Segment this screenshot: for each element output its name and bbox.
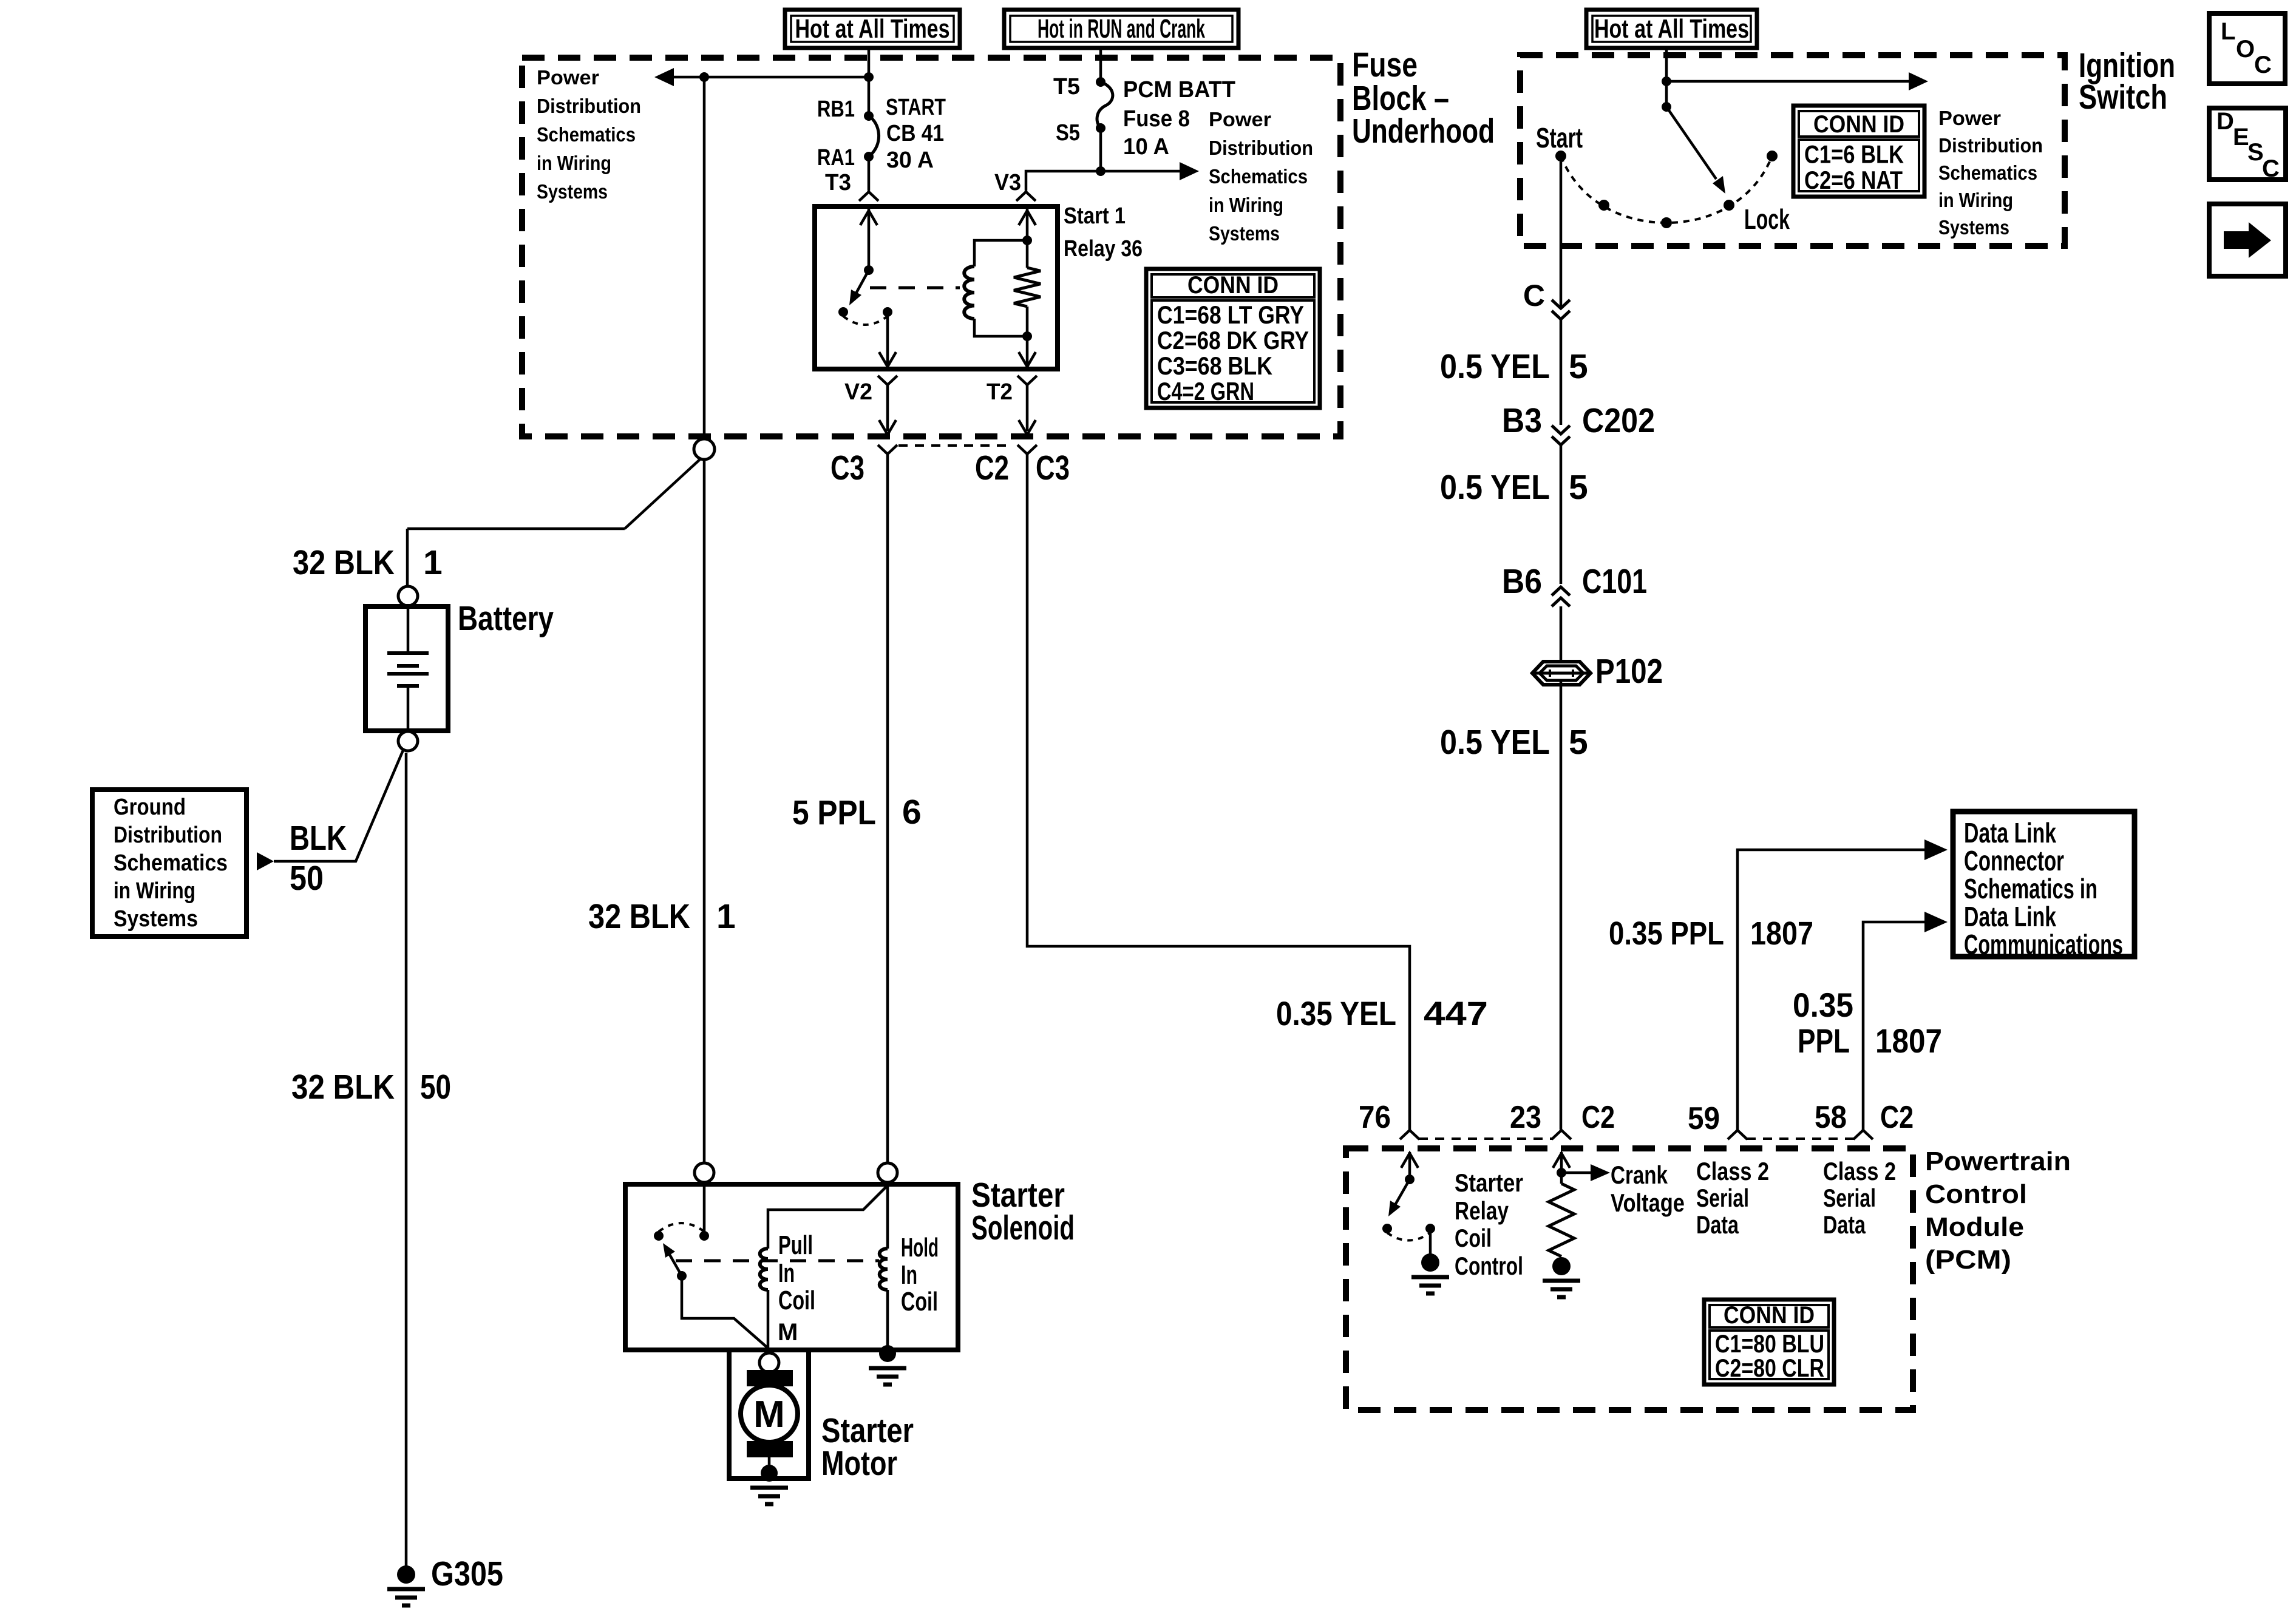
svg-text:32 BLK: 32 BLK bbox=[293, 543, 395, 582]
svg-text:C202: C202 bbox=[1582, 401, 1655, 440]
solenoid switch bbox=[703, 1182, 706, 1236]
relay resistor bbox=[1026, 206, 1029, 240]
svg-text:Serial: Serial bbox=[1823, 1184, 1876, 1212]
relay coil bbox=[964, 266, 974, 319]
ground distribution schematics box bbox=[92, 790, 246, 937]
DESC box bbox=[2209, 108, 2286, 180]
svg-text:Fuse 8: Fuse 8 bbox=[1123, 106, 1190, 132]
svg-text:V2: V2 bbox=[844, 379, 872, 405]
svg-text:Battery: Battery bbox=[458, 599, 554, 638]
svg-text:T5: T5 bbox=[1053, 74, 1080, 100]
svg-text:Class 2: Class 2 bbox=[1696, 1157, 1769, 1185]
starter solenoid box bbox=[625, 1184, 958, 1350]
relay coil output to T2 bbox=[1026, 336, 1029, 364]
svg-text:Hold: Hold bbox=[901, 1233, 939, 1263]
svg-text:Relay 36: Relay 36 bbox=[1064, 236, 1143, 262]
connector ring bbox=[694, 439, 715, 459]
svg-text:Pull: Pull bbox=[778, 1230, 813, 1260]
splice P102 bbox=[1532, 662, 1591, 685]
ground G305 bbox=[397, 1565, 415, 1584]
wire: branch to V3 bbox=[1026, 171, 1101, 191]
svg-text:C2=6 NAT: C2=6 NAT bbox=[1804, 166, 1903, 194]
terminal V2 below relay bbox=[878, 376, 897, 385]
svg-text:Distribution: Distribution bbox=[1938, 134, 2043, 157]
svg-text:Systems: Systems bbox=[1938, 216, 2009, 239]
CONN ID table (PCM) bbox=[1704, 1300, 1834, 1385]
svg-text:Hot at All Times: Hot at All Times bbox=[795, 14, 950, 44]
svg-text:In: In bbox=[778, 1258, 795, 1288]
PCM pull-down resistor bbox=[1549, 1184, 1574, 1256]
svg-text:Solenoid: Solenoid bbox=[971, 1209, 1075, 1247]
svg-text:C: C bbox=[2262, 155, 2280, 182]
wire+arrow to power distribution (ignition) bbox=[1666, 80, 1909, 83]
svg-text:PPL: PPL bbox=[1798, 1022, 1850, 1060]
terminal V3 chevron bbox=[1016, 192, 1036, 201]
svg-text:D: D bbox=[2216, 108, 2234, 135]
svg-text:Systems: Systems bbox=[114, 906, 198, 932]
svg-text:in Wiring: in Wiring bbox=[537, 152, 611, 174]
svg-text:G305: G305 bbox=[431, 1554, 503, 1593]
svg-text:C: C bbox=[1523, 279, 1545, 313]
svg-text:Crank: Crank bbox=[1611, 1161, 1668, 1189]
svg-text:in Wiring: in Wiring bbox=[1209, 194, 1283, 216]
svg-text:Lock: Lock bbox=[1744, 203, 1790, 235]
wire: feed to power distribution (left) bbox=[674, 76, 869, 79]
svg-text:C3: C3 bbox=[830, 449, 864, 487]
svg-text:Coil: Coil bbox=[901, 1287, 938, 1317]
PCM dashed box bbox=[1346, 1148, 1913, 1410]
svg-text:M: M bbox=[778, 1319, 798, 1346]
ignition feed wire bbox=[1665, 48, 1668, 107]
wire: fuse block to battery (32 BLK 1) bbox=[703, 77, 706, 439]
data link connector box bbox=[1953, 812, 2135, 957]
svg-text:0.35 YEL: 0.35 YEL bbox=[1276, 994, 1396, 1032]
wire: class 2 serial data 59 to data link bbox=[1737, 850, 1924, 1130]
pull in coil bbox=[760, 1249, 768, 1290]
wire: junction ring to starter solenoid left (32 BLK 1) bbox=[703, 459, 706, 1163]
svg-text:Data Link: Data Link bbox=[1964, 901, 2056, 932]
terminal T3 chevron bbox=[859, 192, 878, 201]
svg-text:CONN ID: CONN ID bbox=[1187, 272, 1279, 299]
svg-text:T3: T3 bbox=[825, 170, 851, 195]
junction node bbox=[864, 72, 874, 82]
svg-text:5: 5 bbox=[1569, 468, 1588, 507]
solenoid terminals bbox=[695, 1163, 714, 1182]
svg-text:M: M bbox=[753, 1394, 785, 1436]
svg-text:Schematics: Schematics bbox=[1209, 165, 1308, 188]
wire: C2/C3 to PCM 76 (0.35 YEL 447) bbox=[1027, 454, 1410, 1130]
PCM pin 59 bbox=[1728, 1130, 1747, 1139]
svg-text:Coil: Coil bbox=[1455, 1224, 1492, 1252]
svg-text:5 PPL: 5 PPL bbox=[792, 793, 876, 832]
svg-text:B6: B6 bbox=[1502, 562, 1542, 601]
svg-text:in Wiring: in Wiring bbox=[114, 878, 195, 904]
svg-text:32 BLK: 32 BLK bbox=[291, 1068, 395, 1107]
svg-text:T2: T2 bbox=[987, 379, 1013, 405]
svg-text:C1=68 LT GRY: C1=68 LT GRY bbox=[1157, 300, 1304, 329]
svg-text:CONN ID: CONN ID bbox=[1813, 111, 1904, 138]
svg-text:Schematics: Schematics bbox=[1938, 161, 2037, 184]
svg-text:Hot at All Times: Hot at All Times bbox=[1594, 14, 1749, 44]
svg-text:O: O bbox=[2236, 36, 2255, 63]
battery bbox=[398, 586, 418, 606]
svg-text:Serial: Serial bbox=[1696, 1184, 1749, 1212]
svg-text:C4=2 GRN: C4=2 GRN bbox=[1157, 377, 1254, 405]
PCM pin 76 bbox=[1400, 1130, 1419, 1139]
fuse block - underhood dashed box bbox=[522, 58, 1340, 436]
starter motor bbox=[729, 1350, 809, 1479]
relay output to V2 bbox=[886, 312, 889, 364]
ignition rotor arrow bbox=[1662, 102, 1671, 112]
svg-text:V3: V3 bbox=[994, 170, 1021, 195]
svg-text:Voltage: Voltage bbox=[1611, 1188, 1685, 1217]
header box: Hot at All Times (left) bbox=[785, 10, 960, 48]
ignition key positions arc bbox=[1561, 156, 1772, 223]
svg-text:Control: Control bbox=[1455, 1252, 1523, 1280]
svg-text:Hot in RUN and Crank: Hot in RUN and Crank bbox=[1038, 14, 1205, 44]
svg-text:Module: Module bbox=[1925, 1212, 2024, 1242]
svg-text:C2: C2 bbox=[975, 449, 1009, 487]
PCM crank voltage sense bbox=[1560, 1152, 1563, 1184]
wire: ignition Start output bbox=[1560, 161, 1563, 307]
svg-text:0.5 YEL: 0.5 YEL bbox=[1440, 347, 1550, 386]
svg-text:S5: S5 bbox=[1056, 120, 1080, 146]
solenoid blade with arrow bbox=[665, 1246, 682, 1276]
svg-text:CONN ID: CONN ID bbox=[1724, 1302, 1815, 1329]
svg-text:Distribution: Distribution bbox=[114, 822, 222, 848]
PCM connector dashed rows bbox=[1419, 1137, 1552, 1140]
svg-text:In: In bbox=[901, 1260, 917, 1290]
svg-text:30 A: 30 A bbox=[886, 147, 934, 173]
header box: Hot in RUN and Crank bbox=[1004, 10, 1238, 48]
arrow from ground distribution box bbox=[257, 852, 274, 870]
PCM starter relay coil control switch bbox=[1408, 1152, 1411, 1179]
wire: battery to G305 bbox=[405, 753, 408, 1567]
motor ground bbox=[761, 1465, 778, 1482]
connector row C3 / C2 C3 at fuse block bottom bbox=[898, 444, 1013, 447]
svg-text:Underhood: Underhood bbox=[1352, 112, 1495, 151]
svg-text:BLK: BLK bbox=[290, 819, 347, 858]
ignition switch dashed box bbox=[1520, 55, 2065, 246]
svg-text:0.35: 0.35 bbox=[1793, 986, 1853, 1024]
wire RA1 to T3 terminal bbox=[868, 157, 871, 191]
relay switch common bbox=[868, 206, 871, 270]
svg-text:50: 50 bbox=[290, 859, 324, 898]
wire: hot feed into fuse block bbox=[868, 48, 871, 116]
wire: C3 to starter solenoid right (5 PPL 6) bbox=[886, 454, 889, 1163]
relay contact dashed arc bbox=[843, 316, 888, 325]
forward arrow box bbox=[2209, 204, 2286, 276]
svg-text:Schematics: Schematics bbox=[537, 123, 636, 146]
LOC box bbox=[2209, 13, 2285, 84]
svg-text:Powertrain: Powertrain bbox=[1925, 1147, 2071, 1176]
svg-text:447: 447 bbox=[1424, 994, 1488, 1032]
svg-text:23: 23 bbox=[1510, 1100, 1541, 1135]
svg-text:Control: Control bbox=[1925, 1179, 2027, 1209]
svg-text:58: 58 bbox=[1815, 1100, 1847, 1135]
svg-text:0.5 YEL: 0.5 YEL bbox=[1440, 468, 1550, 507]
svg-text:1: 1 bbox=[716, 897, 736, 936]
CONN ID table (fuse block) bbox=[1146, 269, 1320, 408]
svg-text:76: 76 bbox=[1359, 1100, 1391, 1135]
svg-text:Start 1: Start 1 bbox=[1064, 203, 1126, 229]
svg-text:P102: P102 bbox=[1595, 652, 1663, 691]
svg-text:Data: Data bbox=[1823, 1210, 1866, 1239]
svg-text:32 BLK: 32 BLK bbox=[588, 897, 690, 936]
svg-text:Motor: Motor bbox=[821, 1444, 897, 1483]
svg-text:Schematics: Schematics bbox=[114, 850, 228, 876]
svg-text:L: L bbox=[2221, 18, 2235, 45]
circuit breaker CB 41 bbox=[864, 111, 874, 121]
svg-text:Switch: Switch bbox=[2079, 78, 2167, 117]
svg-text:C1=6 BLK: C1=6 BLK bbox=[1804, 140, 1904, 169]
svg-text:B3: B3 bbox=[1502, 401, 1542, 440]
svg-text:(PCM): (PCM) bbox=[1925, 1245, 2011, 1275]
svg-text:1807: 1807 bbox=[1750, 915, 1813, 952]
wire below fuse 8 bbox=[1099, 128, 1102, 171]
svg-text:C2=68 DK GRY: C2=68 DK GRY bbox=[1157, 326, 1309, 354]
svg-text:Distribution: Distribution bbox=[1209, 137, 1313, 159]
svg-text:Distribution: Distribution bbox=[537, 95, 641, 117]
svg-text:5: 5 bbox=[1569, 723, 1588, 762]
svg-text:Communications: Communications bbox=[1964, 929, 2123, 960]
relay switch blade bbox=[851, 270, 869, 302]
relay: Start 1 Relay 36 box bbox=[815, 206, 1058, 369]
svg-text:Schematics in: Schematics in bbox=[1964, 873, 2097, 904]
svg-text:E: E bbox=[2233, 124, 2249, 151]
wire: Hot in RUN feed to fuse 8 bbox=[1099, 48, 1102, 82]
svg-text:C: C bbox=[2254, 52, 2272, 78]
fuse 8 PCM BATT bbox=[1096, 77, 1106, 87]
relay mechanical dashed link bbox=[870, 286, 960, 290]
wire + arrow: to power distribution (right) bbox=[1101, 170, 1180, 173]
svg-text:50: 50 bbox=[420, 1068, 451, 1107]
svg-text:PCM BATT: PCM BATT bbox=[1123, 77, 1235, 103]
svg-text:Class 2: Class 2 bbox=[1823, 1157, 1896, 1185]
arrow to power distribution schematics left bbox=[654, 68, 674, 86]
PCM pin 58 bbox=[1853, 1130, 1873, 1139]
relay contacts bbox=[838, 307, 848, 317]
wire diagonal to battery bbox=[625, 458, 701, 529]
svg-text:Connector: Connector bbox=[1964, 845, 2064, 876]
svg-text:Data: Data bbox=[1696, 1210, 1739, 1239]
svg-text:RA1: RA1 bbox=[817, 145, 855, 171]
svg-text:C3=68 BLK: C3=68 BLK bbox=[1157, 351, 1272, 380]
wire: battery negative to ground ref and G305 bbox=[274, 750, 403, 861]
svg-text:0.35 PPL: 0.35 PPL bbox=[1609, 915, 1724, 952]
svg-text:Power: Power bbox=[1938, 107, 2001, 129]
svg-text:6: 6 bbox=[902, 793, 922, 832]
CONN ID table (ignition) bbox=[1793, 106, 1924, 197]
svg-text:Ground: Ground bbox=[114, 795, 186, 820]
svg-text:CB 41: CB 41 bbox=[886, 121, 944, 146]
wire: class 2 serial data 58 to data link bbox=[1863, 922, 1924, 1130]
svg-text:C2: C2 bbox=[1880, 1100, 1914, 1135]
wire to PCM 23 bbox=[1560, 681, 1563, 1130]
svg-text:5: 5 bbox=[1569, 347, 1588, 386]
hold in coil bbox=[886, 1182, 889, 1249]
svg-text:Start: Start bbox=[1536, 122, 1583, 154]
PCM pin 23 bbox=[1552, 1130, 1571, 1139]
svg-text:START: START bbox=[886, 95, 946, 120]
svg-text:Coil: Coil bbox=[778, 1286, 815, 1315]
svg-text:RB1: RB1 bbox=[817, 97, 855, 122]
svg-text:C3: C3 bbox=[1036, 449, 1070, 487]
svg-text:C101: C101 bbox=[1582, 562, 1647, 601]
svg-text:S: S bbox=[2247, 139, 2264, 166]
svg-text:Power: Power bbox=[1209, 108, 1271, 131]
header box: Hot at All Times (right) bbox=[1586, 10, 1757, 48]
svg-text:C2: C2 bbox=[1581, 1100, 1615, 1135]
svg-text:Power: Power bbox=[537, 66, 599, 89]
svg-text:Systems: Systems bbox=[1209, 222, 1280, 245]
svg-text:Starter: Starter bbox=[1455, 1168, 1523, 1197]
svg-text:1807: 1807 bbox=[1875, 1022, 1942, 1060]
solenoid mechanical dashed link bbox=[676, 1259, 879, 1263]
svg-text:1: 1 bbox=[423, 543, 443, 582]
terminal T2 below relay bbox=[1017, 376, 1037, 385]
svg-text:C2=80 CLR: C2=80 CLR bbox=[1715, 1354, 1824, 1382]
svg-text:Data Link: Data Link bbox=[1964, 817, 2056, 849]
svg-text:0.5 YEL: 0.5 YEL bbox=[1440, 723, 1550, 762]
svg-text:Systems: Systems bbox=[537, 180, 608, 203]
svg-text:59: 59 bbox=[1688, 1101, 1720, 1136]
svg-text:10 A: 10 A bbox=[1123, 134, 1169, 160]
svg-text:in Wiring: in Wiring bbox=[1938, 189, 2013, 211]
solenoid ground bbox=[879, 1345, 896, 1362]
svg-text:Relay: Relay bbox=[1455, 1196, 1509, 1225]
